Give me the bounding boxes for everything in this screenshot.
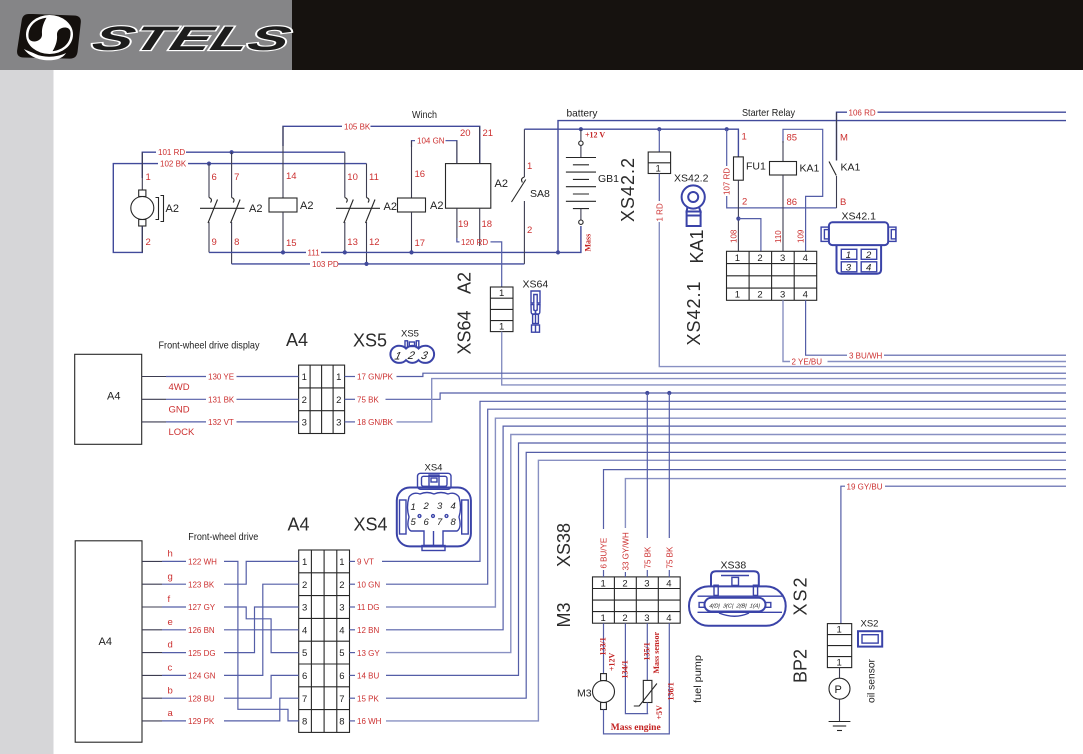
svg-text:16: 16 xyxy=(415,169,426,180)
svg-text:XS42.1: XS42.1 xyxy=(842,211,877,223)
relay coil A2 pins 16/17 xyxy=(398,141,444,253)
svg-text:104 GN: 104 GN xyxy=(417,137,445,146)
svg-text:11 DG: 11 DG xyxy=(357,603,380,612)
wire 2 YE/BU xyxy=(783,300,1066,366)
svg-text:18 GN/BK: 18 GN/BK xyxy=(357,418,394,427)
svg-text:XS5: XS5 xyxy=(401,329,419,340)
svg-text:A4: A4 xyxy=(99,636,112,648)
svg-text:136/1: 136/1 xyxy=(666,682,675,700)
svg-text:SA8: SA8 xyxy=(530,188,550,200)
svg-text:6: 6 xyxy=(212,172,217,183)
svg-text:XS2: XS2 xyxy=(791,575,811,615)
svg-text:3: 3 xyxy=(437,501,443,512)
svg-text:124 GN: 124 GN xyxy=(188,672,216,681)
wire 13 GY bus xyxy=(350,435,1067,658)
svg-text:10 GN: 10 GN xyxy=(357,580,380,589)
wire e 126 BN to pin4 xyxy=(142,617,299,635)
wire 133/1 +12V xyxy=(599,623,617,673)
wire 15 PK bus xyxy=(350,452,1067,703)
svg-text:Mass: Mass xyxy=(584,234,593,252)
svg-text:111: 111 xyxy=(308,248,321,257)
wire 12 BN bus xyxy=(350,426,1067,635)
svg-text:120 RD: 120 RD xyxy=(461,238,488,247)
svg-text:4: 4 xyxy=(302,625,307,636)
svg-text:1: 1 xyxy=(837,625,842,636)
ground symbol xyxy=(829,722,851,731)
connector table XS42.1 xyxy=(727,251,817,300)
connector table XS5/A4 xyxy=(299,365,345,433)
svg-text:10: 10 xyxy=(347,172,358,183)
svg-text:c: c xyxy=(168,663,173,674)
svg-text:5: 5 xyxy=(339,648,344,659)
svg-text:131 BK: 131 BK xyxy=(208,396,235,405)
svg-text:A2: A2 xyxy=(166,203,179,215)
svg-text:battery: battery xyxy=(567,108,599,120)
junction 111 bus1 xyxy=(556,250,560,254)
wire 16 WH bus xyxy=(350,460,1067,726)
pressure sensor P xyxy=(829,668,850,722)
svg-text:Mass sensor: Mass sensor xyxy=(652,631,661,673)
svg-text:9 VT: 9 VT xyxy=(357,558,374,567)
svg-text:2: 2 xyxy=(423,501,430,512)
junction bus2 xs42.2 xyxy=(657,127,661,131)
svg-text:XS5: XS5 xyxy=(353,331,387,351)
svg-text:11: 11 xyxy=(369,172,379,183)
svg-text:A2: A2 xyxy=(455,272,475,294)
wire mass engine xyxy=(604,623,676,734)
junction bus2 battery xyxy=(579,127,583,131)
svg-text:1: 1 xyxy=(499,322,504,333)
winch control box A2 pins 20 21 19 18 xyxy=(446,126,508,246)
wire 33 GY/WH bus xyxy=(621,479,1066,577)
bus rail +12V xyxy=(524,129,738,157)
svg-text:e: e xyxy=(168,617,173,628)
svg-text:130 YE: 130 YE xyxy=(208,373,234,382)
svg-text:106 RD: 106 RD xyxy=(849,108,876,117)
battery GB1 xyxy=(566,129,619,224)
contact A2 pins 7/8 xyxy=(231,152,241,264)
contact A2 pins 11/12 xyxy=(366,164,380,264)
svg-text:4(D| 3(C| 2(B| 1(A|: 4(D| 3(C| 2(B| 1(A| xyxy=(709,604,761,610)
svg-text:4: 4 xyxy=(451,501,456,512)
svg-text:XS4: XS4 xyxy=(354,515,388,535)
connector XS42.1 icon xyxy=(821,211,896,274)
svg-text:3: 3 xyxy=(780,290,785,301)
svg-text:8: 8 xyxy=(302,717,307,728)
svg-text:75 BK: 75 BK xyxy=(665,546,674,568)
svg-text:XS64: XS64 xyxy=(523,279,549,291)
svg-text:Winch: Winch xyxy=(412,109,437,121)
svg-text:KA1: KA1 xyxy=(687,229,707,263)
contact A2 pins 10/13 xyxy=(344,152,358,252)
motor A2 winch xyxy=(131,152,179,252)
svg-text:86: 86 xyxy=(787,197,798,208)
svg-text:2: 2 xyxy=(339,580,344,591)
svg-text:108: 108 xyxy=(730,229,739,243)
svg-text:103 PD: 103 PD xyxy=(312,260,339,269)
thermistor mass sensor xyxy=(634,623,664,719)
svg-text:FU1: FU1 xyxy=(746,161,766,173)
svg-text:7: 7 xyxy=(339,694,344,705)
svg-text:XS42.2: XS42.2 xyxy=(674,173,709,185)
svg-text:A2: A2 xyxy=(430,200,443,212)
svg-text:133/1: 133/1 xyxy=(599,637,608,655)
junction 102BK/pin6 xyxy=(207,162,211,166)
svg-text:14: 14 xyxy=(286,171,297,182)
svg-text:1: 1 xyxy=(837,658,842,669)
relay coil KA1 85/86 xyxy=(770,129,823,251)
fuse FU1 xyxy=(734,132,766,252)
svg-text:6: 6 xyxy=(339,671,344,682)
wire 111 mass rail xyxy=(209,226,581,257)
svg-text:f: f xyxy=(168,594,171,605)
svg-text:XS38: XS38 xyxy=(554,523,574,567)
svg-text:123 BK: 123 BK xyxy=(188,580,215,589)
switch SA8 xyxy=(512,129,551,264)
svg-text:3: 3 xyxy=(644,578,649,589)
svg-text:13 GY: 13 GY xyxy=(357,649,380,658)
connector table XS38/M3 xyxy=(593,577,681,624)
wire 102 BK xyxy=(113,160,366,253)
svg-text:6: 6 xyxy=(302,671,307,682)
svg-text:a: a xyxy=(168,708,174,719)
wire 19 GY/BU bus xyxy=(841,482,1066,623)
svg-text:A2: A2 xyxy=(495,178,508,190)
junction 111 coil17 xyxy=(409,250,413,254)
svg-text:B: B xyxy=(840,197,846,208)
wire 101 RD xyxy=(142,148,344,178)
svg-text:19 GY/BU: 19 GY/BU xyxy=(847,482,883,491)
svg-text:b: b xyxy=(168,685,173,696)
svg-text:4: 4 xyxy=(339,625,344,636)
connector XS2 icon xyxy=(858,619,882,647)
junction 75BK xs38 pin3 xyxy=(645,391,649,395)
wire 75 BK xs5 xyxy=(345,393,1066,405)
svg-text:Starter Relay: Starter Relay xyxy=(742,107,796,119)
svg-text:A2: A2 xyxy=(249,203,262,215)
svg-text:8: 8 xyxy=(451,517,457,528)
svg-text:GND: GND xyxy=(169,405,190,416)
junction 101RD/pin7 xyxy=(230,150,234,154)
svg-text:4: 4 xyxy=(803,290,808,301)
svg-text:110: 110 xyxy=(774,230,783,243)
svg-text:7: 7 xyxy=(437,517,443,528)
svg-text:5: 5 xyxy=(302,648,307,659)
svg-text:2: 2 xyxy=(622,578,627,589)
wire 120 RD xyxy=(457,238,502,287)
contact A2 pins 6/9 xyxy=(208,164,218,253)
svg-text:+5V: +5V xyxy=(655,705,664,720)
svg-text:3: 3 xyxy=(846,262,852,273)
svg-text:7: 7 xyxy=(234,172,239,183)
svg-text:3: 3 xyxy=(302,418,307,429)
svg-text:12: 12 xyxy=(369,237,380,248)
svg-text:125 DG: 125 DG xyxy=(188,649,216,658)
svg-text:12 BN: 12 BN xyxy=(357,626,379,635)
svg-text:XS64: XS64 xyxy=(455,310,475,354)
wire 3 BU/WH xyxy=(806,300,1066,360)
svg-text:3: 3 xyxy=(302,603,307,614)
svg-text:1: 1 xyxy=(846,250,851,261)
connector BP2 stack xyxy=(827,624,851,669)
svg-text:LOCK: LOCK xyxy=(169,427,196,438)
svg-text:17: 17 xyxy=(415,238,426,249)
svg-text:2: 2 xyxy=(302,580,307,591)
svg-text:1 RD: 1 RD xyxy=(655,203,664,221)
svg-text:3: 3 xyxy=(780,253,785,264)
svg-text:18: 18 xyxy=(482,219,493,230)
svg-text:75 BK: 75 BK xyxy=(643,546,652,568)
svg-text:+12V: +12V xyxy=(608,652,617,671)
svg-text:3: 3 xyxy=(644,613,649,624)
svg-text:2: 2 xyxy=(865,250,872,261)
svg-text:132 VT: 132 VT xyxy=(208,418,234,427)
junction 111 coil15 xyxy=(281,250,285,254)
svg-text:KA1: KA1 xyxy=(800,163,820,175)
svg-text:XS4: XS4 xyxy=(425,463,443,474)
terminal XS64 icon xyxy=(523,279,549,333)
junction bus2 107RD xyxy=(725,127,729,131)
header black band xyxy=(292,0,1083,70)
svg-text:135/1: 135/1 xyxy=(642,642,651,660)
STELS wordmark xyxy=(87,20,295,58)
svg-text:134/1: 134/1 xyxy=(620,660,629,678)
svg-text:19: 19 xyxy=(458,219,469,230)
connector XS64 inline stack xyxy=(490,287,513,333)
linkage pair 1 xyxy=(200,207,245,209)
svg-text:STELS: STELS xyxy=(87,20,295,58)
svg-text:4: 4 xyxy=(666,578,671,589)
junction 75BK xs38 pin4 xyxy=(667,391,671,395)
svg-text:4: 4 xyxy=(803,253,808,264)
svg-text:A4: A4 xyxy=(107,391,120,403)
wire 134/1 xyxy=(620,623,648,713)
svg-text:1: 1 xyxy=(411,502,416,513)
wire 17 GN/PK xyxy=(345,373,1066,382)
wire 75 BK xs38 pin3 xyxy=(643,393,652,577)
wire 107 RD xyxy=(723,129,837,208)
svg-text:M: M xyxy=(840,133,848,144)
svg-text:P: P xyxy=(835,684,842,696)
wire 1 RD xyxy=(655,174,1066,367)
svg-text:107 RD: 107 RD xyxy=(723,168,732,195)
motor M3 xyxy=(577,674,615,710)
wire 106 RD xyxy=(837,108,1067,160)
STELS logo S badge xyxy=(17,9,81,60)
connector XS38 icon xyxy=(689,560,786,626)
svg-text:A4: A4 xyxy=(288,515,310,535)
svg-text:8: 8 xyxy=(339,717,344,728)
wire 18 GN/BK xyxy=(345,379,1066,428)
connector XS4 icon xyxy=(397,463,471,551)
svg-text:1: 1 xyxy=(302,557,307,568)
svg-text:15 PK: 15 PK xyxy=(357,694,379,703)
header gray band xyxy=(0,0,292,70)
svg-text:1: 1 xyxy=(499,288,504,299)
svg-text:1: 1 xyxy=(146,172,151,183)
svg-text:7: 7 xyxy=(302,694,307,705)
svg-text:4: 4 xyxy=(866,262,871,273)
bus rail top (mass) xyxy=(558,121,1066,253)
svg-text:2 YE/BU: 2 YE/BU xyxy=(792,358,823,367)
svg-text:BP2: BP2 xyxy=(791,649,811,683)
svg-text:129 PK: 129 PK xyxy=(188,717,215,726)
svg-text:M3: M3 xyxy=(577,688,592,700)
svg-text:4WD: 4WD xyxy=(169,382,190,393)
relay coil A2 pins 14/15 xyxy=(269,126,313,252)
svg-text:6: 6 xyxy=(424,517,430,528)
wire fuse to XS42.1 pin2 xyxy=(738,219,761,252)
wire 75 BK xs38 pin4 xyxy=(665,393,674,577)
svg-text:1: 1 xyxy=(527,161,532,172)
linkage pair 2 xyxy=(336,207,380,209)
svg-text:A2: A2 xyxy=(384,201,397,213)
svg-text:1: 1 xyxy=(339,557,344,568)
svg-text:XS42.2: XS42.2 xyxy=(618,157,638,222)
junction 111 pin13 xyxy=(343,250,347,254)
svg-text:1: 1 xyxy=(742,132,747,143)
svg-text:105 BK: 105 BK xyxy=(344,122,371,131)
svg-text:128 BU: 128 BU xyxy=(188,694,215,703)
svg-text:fuel pump: fuel pump xyxy=(692,655,704,703)
svg-text:4: 4 xyxy=(666,613,671,624)
junction 103PD pin12 xyxy=(364,262,368,266)
svg-text:6 BU/YE: 6 BU/YE xyxy=(600,538,609,569)
svg-text:85: 85 xyxy=(787,133,798,144)
svg-text:KA1: KA1 xyxy=(841,162,861,174)
wire 10 GN bus xyxy=(350,409,1067,589)
svg-text:2: 2 xyxy=(757,290,762,301)
svg-text:101 RD: 101 RD xyxy=(158,148,185,157)
svg-text:1: 1 xyxy=(302,372,307,383)
svg-text:3: 3 xyxy=(339,603,344,614)
wire h 122 WH to pin8 xyxy=(142,549,299,721)
svg-text:Front-wheel drive display: Front-wheel drive display xyxy=(159,340,261,352)
wire 130 YE 4WD xyxy=(142,373,299,393)
svg-text:20: 20 xyxy=(460,128,471,139)
wire d 125 DG to pin3 xyxy=(142,607,299,658)
svg-text:9: 9 xyxy=(212,237,217,248)
wire 104 GN xyxy=(412,137,457,164)
svg-text:17 GN/PK: 17 GN/PK xyxy=(357,373,394,382)
svg-text:3 BU/WH: 3 BU/WH xyxy=(849,351,883,360)
svg-text:1: 1 xyxy=(601,578,606,589)
svg-text:Front-wheel drive: Front-wheel drive xyxy=(188,531,258,543)
svg-text:3: 3 xyxy=(336,418,341,429)
wire 105 BK xyxy=(283,122,480,163)
wire g 123 BK to pin1 xyxy=(142,561,299,589)
svg-text:16 WH: 16 WH xyxy=(357,717,382,726)
svg-text:33 GY/WH: 33 GY/WH xyxy=(621,532,630,570)
wire 11 DG bus xyxy=(350,418,1067,612)
svg-text:5: 5 xyxy=(411,517,417,528)
connector XS42.2 inline xyxy=(648,129,670,174)
svg-text:g: g xyxy=(168,571,173,582)
svg-text:XS42.1: XS42.1 xyxy=(684,280,704,345)
connector table XS4/A4 8pin xyxy=(299,550,350,732)
svg-text:2: 2 xyxy=(336,395,341,406)
svg-text:1: 1 xyxy=(656,164,661,175)
svg-text:2: 2 xyxy=(742,197,747,208)
wire b 128 BU to pin6 xyxy=(142,675,299,703)
svg-text:2: 2 xyxy=(302,395,307,406)
wire 103 PD xyxy=(232,260,525,269)
svg-text:14 BU: 14 BU xyxy=(357,672,379,681)
svg-text:102 BK: 102 BK xyxy=(160,160,187,169)
device A4 display box xyxy=(75,354,142,444)
svg-text:A2: A2 xyxy=(300,200,313,212)
svg-text:21: 21 xyxy=(483,128,494,139)
svg-text:d: d xyxy=(168,640,173,651)
svg-text:oil sensor: oil sensor xyxy=(866,659,878,703)
svg-text:Mass engine: Mass engine xyxy=(611,723,661,733)
wire 131 BK GND xyxy=(142,396,299,416)
svg-text:2: 2 xyxy=(622,613,627,624)
wire XS64 down to bus xyxy=(502,332,1066,385)
svg-text:122 WH: 122 WH xyxy=(188,558,217,567)
svg-text:GB1: GB1 xyxy=(598,173,619,185)
svg-text:1: 1 xyxy=(336,372,341,383)
svg-text:A4: A4 xyxy=(286,330,308,350)
connector XS5 icon xyxy=(390,329,434,363)
svg-text:1: 1 xyxy=(601,613,606,624)
wire 132 VT LOCK xyxy=(142,418,299,438)
svg-text:15: 15 xyxy=(286,238,297,249)
wire f 127 GY to pin5 xyxy=(142,594,299,653)
wire a 129 PK to pin7 xyxy=(142,698,299,726)
svg-text:+12 V: +12 V xyxy=(585,131,605,140)
svg-text:127 GY: 127 GY xyxy=(188,603,216,612)
svg-text:2: 2 xyxy=(527,225,532,236)
svg-text:1: 1 xyxy=(735,253,740,264)
svg-text:8: 8 xyxy=(234,237,239,248)
switch KA1 M/B xyxy=(829,112,861,208)
wire 6 BU/YE bus xyxy=(600,470,1067,577)
svg-text:XS38: XS38 xyxy=(721,560,747,572)
svg-text:126 BN: 126 BN xyxy=(188,626,215,635)
svg-text:1: 1 xyxy=(735,290,740,301)
svg-text:109: 109 xyxy=(797,229,806,243)
left gray margin strip xyxy=(0,70,54,754)
wire c 124 GN to pin2 xyxy=(142,584,299,680)
svg-text:XS2: XS2 xyxy=(861,619,879,630)
junction fuse branch xyxy=(736,217,740,221)
svg-text:2: 2 xyxy=(146,237,151,248)
svg-text:2: 2 xyxy=(757,253,762,264)
wire 14 BU bus xyxy=(350,443,1067,681)
svg-text:13: 13 xyxy=(347,237,358,248)
svg-text:h: h xyxy=(168,549,173,560)
svg-text:75 BK: 75 BK xyxy=(357,396,379,405)
wire 9 VT bus xyxy=(350,401,1067,566)
device A4 drive box xyxy=(75,541,142,742)
ring terminal XS42.2 icon xyxy=(674,173,709,227)
svg-text:M3: M3 xyxy=(554,602,574,627)
